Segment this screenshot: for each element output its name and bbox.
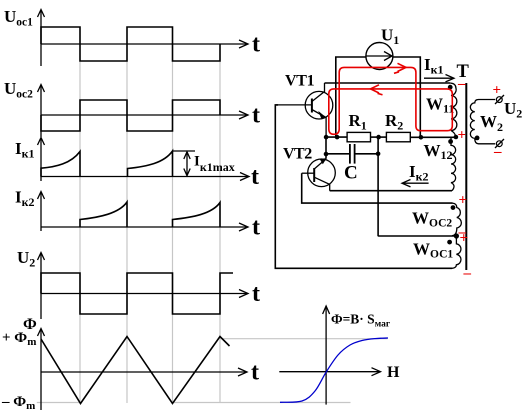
svg-text:U2: U2 xyxy=(17,248,35,270)
timing gridline t2 xyxy=(126,61,128,403)
wire emitters link xyxy=(325,137,327,159)
terminal U2 top xyxy=(495,95,504,104)
svg-text:Uос1: Uос1 xyxy=(4,7,33,29)
winding W12 xyxy=(451,137,456,190)
svg-text:Ф=В· Sмаг: Ф=В· Sмаг xyxy=(331,312,391,330)
axis Uoc1 xyxy=(38,10,249,67)
transistor VT2 xyxy=(302,158,336,190)
svg-text:t: t xyxy=(251,164,259,190)
source U1 xyxy=(366,43,393,70)
waveform U2 xyxy=(41,273,233,314)
svg-text:–: – xyxy=(457,76,466,92)
svg-text:C: C xyxy=(344,163,358,184)
svg-text:t: t xyxy=(251,360,259,386)
rail emitter wire xyxy=(326,136,347,138)
transformer core xyxy=(465,83,467,270)
svg-text:–: – xyxy=(463,266,472,282)
node Woc common xyxy=(454,233,459,238)
wire supply top xyxy=(336,57,421,138)
svg-text:– Фm: – Фm xyxy=(1,394,35,412)
svg-text:W11: W11 xyxy=(426,95,454,116)
wire R1-R2 xyxy=(371,136,387,138)
svg-text:t: t xyxy=(252,32,260,58)
wire VT2 base down xyxy=(302,173,453,203)
timing gridline t3 xyxy=(172,61,174,403)
svg-text:Iк2: Iк2 xyxy=(15,188,35,210)
terminal U2 bottom xyxy=(495,139,504,148)
svg-text:VT1: VT1 xyxy=(285,73,315,90)
svg-text:t: t xyxy=(252,215,260,241)
node W2 bottom dot xyxy=(475,136,480,141)
svg-text:W2: W2 xyxy=(480,112,503,134)
resistor R1 xyxy=(347,132,370,141)
svg-text:t: t xyxy=(252,103,260,129)
red arrow left on mid segment xyxy=(371,85,383,95)
axis Ik1 xyxy=(38,138,250,182)
wire Woc common xyxy=(378,235,456,237)
node VT1 emitter xyxy=(324,135,329,140)
svg-text:Iк1: Iк1 xyxy=(424,55,444,77)
waveform Uoc1 xyxy=(41,27,220,61)
axis Uoc2 xyxy=(38,85,249,138)
svg-text:+: + xyxy=(458,128,467,144)
winding Woc2 xyxy=(452,203,461,236)
resistor R2 xyxy=(386,132,410,141)
svg-text:U2: U2 xyxy=(504,99,522,121)
node W11 top dot xyxy=(448,85,453,90)
svg-text:U1: U1 xyxy=(381,26,399,48)
winding W2 xyxy=(470,100,495,144)
transistor VT1 xyxy=(276,83,333,137)
svg-text:VT2: VT2 xyxy=(283,146,312,163)
wire base loop VT1 xyxy=(275,105,452,268)
svg-text:Iк1: Iк1 xyxy=(15,139,35,161)
svg-text:+: + xyxy=(459,193,468,209)
waveform Ik1 pulse2 xyxy=(128,151,173,177)
node U1 minus xyxy=(335,135,340,140)
gridline +Fm level xyxy=(220,338,387,340)
node Woc1 top dot xyxy=(447,240,452,245)
svg-text:Uос2: Uос2 xyxy=(4,79,33,101)
svg-text:+: + xyxy=(460,231,469,247)
timing gridline t4 xyxy=(219,61,221,403)
svg-text:WОС2: WОС2 xyxy=(412,209,452,230)
svg-text:Iк2: Iк2 xyxy=(409,162,429,184)
winding Woc1 xyxy=(452,236,461,268)
svg-text:H: H xyxy=(387,364,400,381)
waveform Ik1 pulse1 xyxy=(41,152,80,177)
waveform Uoc2 xyxy=(41,100,220,131)
gridline -Fm level left xyxy=(37,402,80,404)
Ik1max peak line xyxy=(173,150,196,152)
svg-text:Iк1max: Iк1max xyxy=(194,154,235,175)
svg-text:+: + xyxy=(493,83,502,99)
label Ik1 arrow xyxy=(424,75,454,82)
svg-text:R2: R2 xyxy=(385,111,403,133)
red current loop Ik1 xyxy=(329,67,453,134)
svg-text:R1: R1 xyxy=(349,111,367,133)
svg-text:W12: W12 xyxy=(424,141,453,162)
axis F xyxy=(38,329,248,411)
node W12 top dot xyxy=(448,139,453,144)
BH magnetization curve xyxy=(280,338,388,402)
axis U2 xyxy=(38,253,249,320)
waveform F triangle xyxy=(41,337,230,404)
svg-text:t: t xyxy=(252,281,260,307)
wire VT2 collector to W12 xyxy=(330,190,452,192)
axis Ik2 xyxy=(38,192,249,232)
label Ik2 arrow xyxy=(402,180,429,187)
capacitor C xyxy=(350,144,355,164)
wire C left xyxy=(326,153,349,155)
waveform Ik2 pulse2 xyxy=(173,203,221,228)
wire C right xyxy=(355,153,379,155)
node R1-R2 xyxy=(376,135,381,140)
node C right xyxy=(376,152,381,157)
BH vertical axis xyxy=(323,306,330,405)
wire VT1 collector to W11 xyxy=(325,82,451,84)
svg-text:–: – xyxy=(493,144,502,160)
node VT2 emitter xyxy=(324,152,329,157)
node center tap xyxy=(454,135,459,140)
waveform Ik2 pulse1 xyxy=(80,202,127,227)
node Woc2 top dot xyxy=(451,205,456,210)
timing gridline t1 xyxy=(79,61,81,403)
red arrow right on top segment xyxy=(394,63,406,73)
node U1 plus tap xyxy=(419,135,424,140)
winding W11 xyxy=(450,83,457,137)
gridline -Fm level right xyxy=(174,402,351,404)
Ik1max measure arrow xyxy=(184,152,190,176)
wire R2 to tap xyxy=(410,136,456,138)
BH H axis xyxy=(279,368,380,376)
wire bias vertical xyxy=(377,137,379,236)
